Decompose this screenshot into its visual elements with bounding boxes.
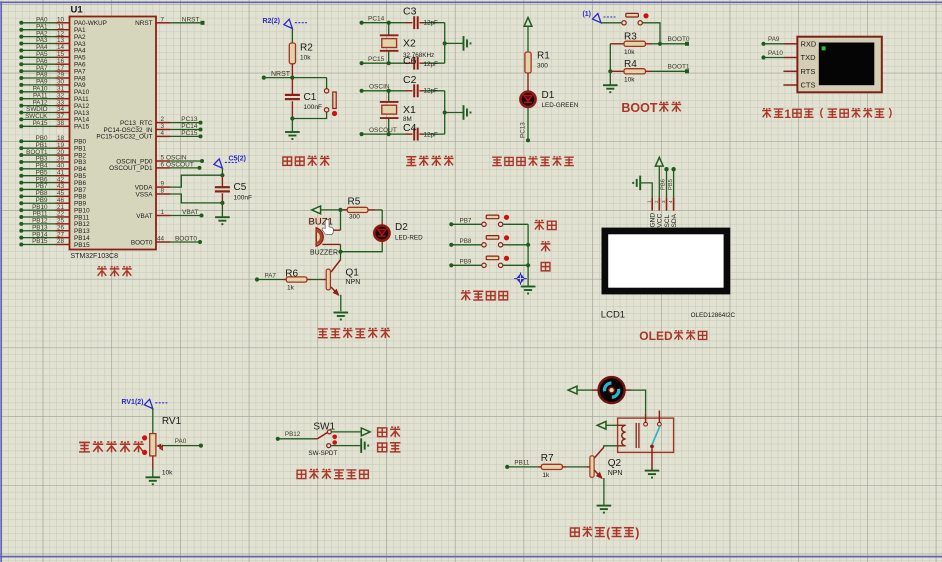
svg-text:BOOT1: BOOT1 (668, 64, 690, 71)
power arrow above R1 (524, 18, 532, 53)
resistor R5 300 (341, 197, 383, 221)
transistor Q2 NPN (590, 447, 623, 504)
svg-text:BUZZER: BUZZER (310, 249, 338, 256)
wire to ground BOOT (609, 71, 611, 84)
crystal X1 8M (380, 91, 416, 134)
label 加 (541, 241, 551, 251)
pin PC15 (4) + net PC15 (96, 130, 202, 141)
svg-text:BOOT0: BOOT0 (131, 239, 153, 246)
svg-text:12pF: 12pF (424, 132, 439, 139)
wire SDA terminal (668, 167, 676, 197)
svg-text:PC15-OSC32_OUT: PC15-OSC32_OUT (96, 134, 152, 141)
wire coil bottom to Q2 collector (604, 446, 618, 447)
wire R2 to NRST node (291, 64, 293, 78)
net PA9 terminal + wire to RXD (761, 36, 783, 46)
svg-text:VCC: VCC (657, 213, 664, 227)
pin PC14 (3) + net PC14 (103, 123, 202, 134)
capacitor C5 100nF (215, 175, 252, 203)
svg-text:Q2: Q2 (608, 458, 622, 469)
svg-text:2: 2 (654, 200, 659, 203)
net PC14 terminal (360, 16, 389, 25)
svg-text:LCD1: LCD1 (601, 310, 625, 321)
svg-text:1: 1 (647, 200, 652, 203)
svg-text:10k: 10k (300, 55, 311, 62)
svg-text:PB7: PB7 (460, 218, 472, 225)
svg-text:1: 1 (784, 107, 791, 121)
wire+pin PA6 (pin 16) left side U1 (19, 58, 86, 69)
motor/fan (592, 377, 631, 403)
svg-text:CTS: CTS (801, 81, 816, 90)
label OLED显示屏 (639, 329, 706, 343)
wire probe to node (221, 168, 223, 175)
wire motor to relay contact (631, 390, 646, 413)
net PC15 terminal (360, 56, 389, 65)
relay RL coil+contact box (618, 411, 674, 471)
label 可燃气调节 (79, 441, 144, 452)
wire+pin PB0 (pin 18) left side U1 (19, 135, 86, 146)
svg-text:PA15: PA15 (33, 120, 48, 127)
power arrow alarm (312, 206, 341, 214)
svg-text:PB12: PB12 (285, 431, 301, 438)
label 火焰检测模块 (297, 469, 368, 479)
net OSCOUT terminal (360, 127, 397, 136)
svg-text:PA15: PA15 (74, 124, 90, 131)
svg-text:D2: D2 (395, 222, 408, 233)
hand cursor over BUZ1 (322, 220, 333, 235)
wire+pin PB5 (pin 41) left side U1 (19, 169, 86, 180)
node X1/C4 junction (387, 132, 391, 136)
net PA7 terminal + resistor R6 1k (255, 268, 326, 291)
probe RV1(2) (121, 399, 167, 409)
wire+pin PA3 (pin 13) left side U1 (19, 37, 86, 48)
wire+pin PB9 (pin 46) left side U1 (19, 197, 86, 208)
origin marker (blue) (514, 272, 527, 284)
node BOOT0 junction + terminal (658, 36, 690, 46)
svg-text:SW1: SW1 (313, 421, 335, 432)
label 减 (541, 262, 550, 270)
wire+pin PB11 (pin 22) left side U1 (19, 211, 89, 222)
svg-text:TXD: TXD (801, 53, 817, 62)
svg-text:PB15: PB15 (32, 238, 48, 245)
label 串口1窗口（模拟手机端） (762, 107, 891, 121)
svg-text:6: 6 (160, 161, 164, 168)
net PB12 terminal (276, 431, 314, 441)
wire+pin PB10 (pin 21) left side U1 (19, 204, 90, 215)
node VSSA/C5 bottom junction (220, 201, 224, 205)
wire+pin PA8 (pin 29) left side U1 (19, 72, 86, 83)
svg-text:PB5: PB5 (668, 179, 674, 190)
wire+pin PB7 (pin 43) left side U1 (19, 183, 86, 194)
svg-text:100nF: 100nF (304, 104, 322, 111)
wire+pin PA10 (pin 31) left side U1 (19, 86, 89, 97)
ground (rotated) upper crystal rail (464, 36, 471, 51)
transistor Q1 NPN (326, 252, 360, 312)
svg-text:R4: R4 (624, 59, 637, 70)
wire R3 left down to R4 (608, 44, 612, 74)
push button reset (292, 78, 337, 119)
wire right rail upper (443, 23, 463, 64)
pin VSSA (8) wire to C5 bottom node (135, 188, 222, 203)
svg-text:): ) (635, 526, 639, 540)
svg-text:3: 3 (661, 200, 666, 203)
wire buttons common rail (526, 224, 530, 285)
net PB9 terminal + push button (449, 256, 528, 268)
svg-text:C3: C3 (403, 6, 417, 18)
wire C1 bottom node (290, 116, 294, 131)
svg-text:PB9: PB9 (460, 259, 472, 266)
svg-text:10k: 10k (624, 77, 635, 84)
svg-text:12pF: 12pF (424, 61, 439, 68)
svg-text:OSCIN: OSCIN (369, 84, 390, 91)
pin VDDA (9) wire to C5 top node (135, 175, 223, 191)
svg-text:12pF: 12pF (424, 20, 439, 27)
capacitor C2 12pF (389, 74, 445, 97)
svg-text:PC13: PC13 (520, 122, 527, 138)
wire+pin PB12 (pin 25) left side U1 (19, 218, 90, 229)
pin OSCIN_PD0 (5) + net OSCIN (116, 155, 204, 166)
capacitor C1 100nF (285, 78, 322, 119)
net PB7 terminal + push button (449, 215, 528, 227)
svg-text:BOOT0: BOOT0 (668, 36, 690, 43)
ground BOOT (603, 85, 618, 92)
wire+pin PB8 (pin 45) left side U1 (19, 190, 86, 201)
svg-text:44: 44 (157, 236, 165, 243)
label 主芯片 (97, 266, 132, 276)
buzzer BUZ1 (308, 210, 341, 256)
node X1/C2 junction (387, 89, 391, 93)
node VDDA/C5 top junction (220, 173, 224, 177)
label 程序运行指示灯 (492, 156, 574, 166)
wire+pin PB14 (pin 27) left side U1 (19, 231, 90, 242)
net OSCIN terminal (360, 84, 390, 93)
label 继电器(风扇) (570, 526, 639, 540)
net BOOT1 terminal (668, 64, 690, 74)
net PA0 wiper terminal (162, 438, 203, 448)
wire OLED GND (640, 183, 652, 197)
svg-text:4: 4 (668, 200, 673, 203)
ground relay contact (645, 471, 660, 478)
svg-text:R6: R6 (285, 268, 298, 279)
wire to ground (221, 203, 223, 217)
svg-text:R7: R7 (541, 453, 554, 464)
svg-text:OSCOUT: OSCOUT (369, 127, 397, 134)
wire+pin PB3 (pin 39) left side U1 (19, 156, 86, 167)
net PA10 terminal + wire to TXD (761, 50, 783, 60)
wire SCL terminal (661, 167, 669, 197)
svg-text:PA10: PA10 (768, 50, 783, 57)
svg-text:1: 1 (160, 209, 164, 216)
svg-text:7: 7 (160, 16, 164, 23)
ground RV1 (146, 477, 161, 484)
virtual terminal (serial window) (783, 37, 881, 93)
power arrow motor left (568, 386, 592, 394)
net PB11 terminal + resistor R7 1k (505, 453, 590, 479)
wire R1 to D1 (527, 73, 529, 91)
ground buttons (521, 287, 536, 294)
wire D1 to PC13 terminal (520, 107, 531, 142)
ground Q1 emitter (334, 313, 349, 320)
svg-text:Q1: Q1 (346, 268, 360, 279)
svg-text:28: 28 (57, 238, 65, 245)
svg-text:8: 8 (160, 188, 164, 195)
wire+pin PA2 (pin 12) left side U1 (19, 30, 86, 41)
svg-text:NPN: NPN (346, 279, 361, 286)
crystal X2 32.768KHz (380, 23, 434, 64)
label 独立按键 (461, 290, 508, 300)
svg-text:C5(2): C5(2) (228, 155, 246, 162)
ground Q2 emitter (597, 506, 612, 513)
svg-text:10k: 10k (624, 49, 635, 56)
svg-text:1k: 1k (287, 284, 295, 291)
label 晶振电路 (406, 156, 453, 166)
svg-text:R1: R1 (537, 51, 550, 62)
wire+pin PA1 (pin 11) left side U1 (19, 23, 86, 34)
svg-text:300: 300 (349, 214, 360, 221)
wire probe to RV1 (152, 409, 154, 434)
svg-text:PB15: PB15 (74, 242, 90, 249)
svg-text:PC15: PC15 (368, 56, 385, 63)
svg-text:BOOT0: BOOT0 (175, 236, 197, 243)
svg-text:C2: C2 (403, 74, 417, 86)
wire R5 to D2 (381, 210, 383, 226)
svg-text:PC15: PC15 (181, 130, 198, 137)
capacitor C4 12pF (389, 122, 445, 140)
wire+pin PA15 (pin 38) left side U1 (19, 120, 89, 131)
svg-text:PB8: PB8 (460, 238, 472, 245)
pin VBAT (1) + net VBAT (136, 209, 203, 220)
svg-text:PA7: PA7 (265, 272, 277, 279)
svg-text:GND: GND (650, 213, 657, 228)
label 火灾 (378, 443, 401, 452)
svg-text:RV1: RV1 (162, 416, 182, 427)
ground below C5 (215, 217, 230, 224)
svg-text:300: 300 (537, 63, 548, 70)
svg-text:R3: R3 (624, 32, 637, 43)
ground (rotated) OLED GND pin (633, 176, 640, 191)
wire probe to R2 (291, 29, 293, 44)
svg-text:LED-GREEN: LED-GREEN (542, 102, 579, 109)
node buzzer top junction (338, 208, 342, 212)
svg-text:38: 38 (57, 120, 65, 127)
svg-text:VBAT: VBAT (182, 209, 199, 216)
resistor R2 10k (289, 43, 313, 64)
svg-text:PA0: PA0 (175, 438, 187, 445)
wire+pin BOOT1 (pin 20) left side U1 (19, 149, 86, 160)
svg-text:BOOT: BOOT (621, 101, 657, 115)
LED D2 LED-RED (374, 222, 423, 242)
svg-text:PB6: PB6 (661, 179, 667, 190)
LCD1 OLED display body (601, 228, 736, 321)
ground (rotated) flame module (361, 438, 368, 453)
wire+pin PB6 (pin 42) left side U1 (19, 176, 86, 187)
node NRST net + terminal (262, 71, 327, 80)
wire+pin SWDIO (pin 34) left side U1 (19, 106, 89, 117)
resistor R3 10k (610, 32, 660, 57)
resistor R1 300 (525, 51, 550, 74)
label 设置 (534, 220, 556, 230)
wire+pin PB4 (pin 40) left side U1 (19, 163, 86, 174)
wire probe to button (601, 22, 622, 24)
svg-text:C6: C6 (403, 55, 417, 67)
wire SW1 top throw to power arrow (332, 428, 371, 436)
push button BOOT top (622, 13, 649, 25)
resistor R4 10k (610, 59, 687, 84)
ground (rotated) lower crystal rail (464, 105, 471, 120)
svg-text:NPN: NPN (608, 470, 623, 477)
svg-text:SCL: SCL (664, 214, 671, 227)
svg-text:RTS: RTS (801, 67, 816, 76)
svg-text:X2: X2 (403, 37, 416, 49)
potentiometer RV1 10k (142, 416, 182, 477)
svg-text:12pF: 12pF (424, 88, 439, 95)
svg-text:C5: C5 (234, 182, 247, 193)
node X2/C6 junction (387, 61, 391, 65)
probe C5(2) (214, 155, 246, 168)
svg-text:PA9: PA9 (768, 36, 780, 43)
probe (1) (582, 11, 615, 23)
svg-text:STM32F103C8: STM32F103C8 (71, 253, 119, 260)
net PB8 terminal + push button (449, 235, 528, 247)
wire+pin PA11 (pin 32) left side U1 (19, 92, 89, 103)
svg-text:NRST: NRST (182, 16, 200, 23)
ground reset (285, 132, 300, 139)
pin OSCOUT_PD1 (6) + net OSCOUT (109, 161, 201, 172)
wire+pin PA9 (pin 30) left side U1 (19, 79, 86, 90)
svg-text:C4: C4 (403, 122, 417, 134)
svg-text:PB11: PB11 (514, 459, 529, 466)
svg-text:R2(2): R2(2) (262, 18, 280, 25)
svg-text:OSCOUT: OSCOUT (166, 162, 194, 169)
svg-text:VBAT: VBAT (136, 213, 152, 220)
svg-text:RV1(2): RV1(2) (121, 399, 143, 406)
wire+pin PA0 (pin 10) left side U1 (19, 17, 107, 28)
wire+pin SWCLK (pin 37) left side U1 (19, 113, 89, 124)
svg-text:VSSA: VSSA (135, 191, 153, 198)
svg-text:(1): (1) (582, 11, 591, 18)
svg-text:NRST: NRST (135, 20, 152, 27)
svg-text:1k: 1k (542, 472, 550, 479)
wire+pin PA7 (pin 17) left side U1 (19, 65, 86, 76)
label 声光报警电路 (318, 328, 390, 338)
svg-text:OSCOUT_PD1: OSCOUT_PD1 (109, 165, 153, 172)
capacitor C6 12pF (389, 55, 445, 69)
wire+pin PA12 (pin 33) left side U1 (19, 99, 89, 110)
node X2/C3 junction (387, 21, 391, 25)
svg-text:10k: 10k (162, 469, 173, 476)
pin NRST (7) right side U1 + net NRST (135, 16, 204, 27)
wire+pin PA5 (pin 15) left side U1 (19, 51, 86, 62)
svg-text:U1: U1 (71, 5, 84, 16)
svg-text:C1: C1 (304, 92, 317, 103)
label 复位电路 (283, 156, 330, 166)
wire button to BOOT0 node (642, 23, 660, 44)
svg-text:LED-RED: LED-RED (395, 235, 423, 242)
svg-text:SDA: SDA (671, 213, 678, 227)
svg-text:4: 4 (160, 130, 164, 137)
node buzzer bottom junction (338, 250, 342, 254)
svg-text:X1: X1 (403, 104, 416, 116)
pin BOOT0 (44) + net BOOT0 (131, 236, 202, 247)
svg-text:PC14: PC14 (368, 16, 385, 23)
wire+pin PA4 (pin 14) left side U1 (19, 44, 86, 55)
wire+pin PB13 (pin 26) left side U1 (19, 224, 90, 235)
wire+pin PB15 (pin 28) left side U1 (19, 238, 90, 249)
svg-text:D1: D1 (542, 90, 555, 101)
wire right rail lower (443, 91, 463, 134)
pin PC13 (2) + net PC13 (120, 116, 203, 127)
wire RV1 to ground (152, 456, 154, 477)
op-amp U1 body (STM32F103C8 MCU) (70, 5, 157, 261)
probe R2(2) (262, 18, 306, 29)
switch SW1 SW-SPDT (308, 421, 337, 456)
wire SW1 bottom throw to ground (331, 445, 361, 447)
svg-text:RXD: RXD (801, 40, 817, 49)
svg-text:100nF: 100nF (234, 195, 252, 202)
svg-text:SW-SPDT: SW-SPDT (308, 450, 337, 457)
label BOOT电路 (621, 101, 681, 115)
LED D1 LED-GREEN (520, 90, 578, 109)
power arrow relay coil (597, 421, 617, 429)
power arrow OLED VCC (655, 157, 663, 197)
svg-text:NRST: NRST (271, 71, 291, 78)
LCD1 OLED display pins (647, 197, 678, 227)
svg-text:R2: R2 (300, 43, 313, 54)
svg-text:OLED: OLED (639, 329, 673, 343)
label 安全 (378, 427, 401, 438)
svg-text:R5: R5 (348, 197, 361, 208)
capacitor C3 12pF (389, 6, 445, 30)
wire+pin PB1 (pin 19) left side U1 (19, 142, 86, 153)
svg-text:OLED12864I2C: OLED12864I2C (691, 312, 736, 319)
wire D2 bottom to node row (341, 241, 383, 252)
